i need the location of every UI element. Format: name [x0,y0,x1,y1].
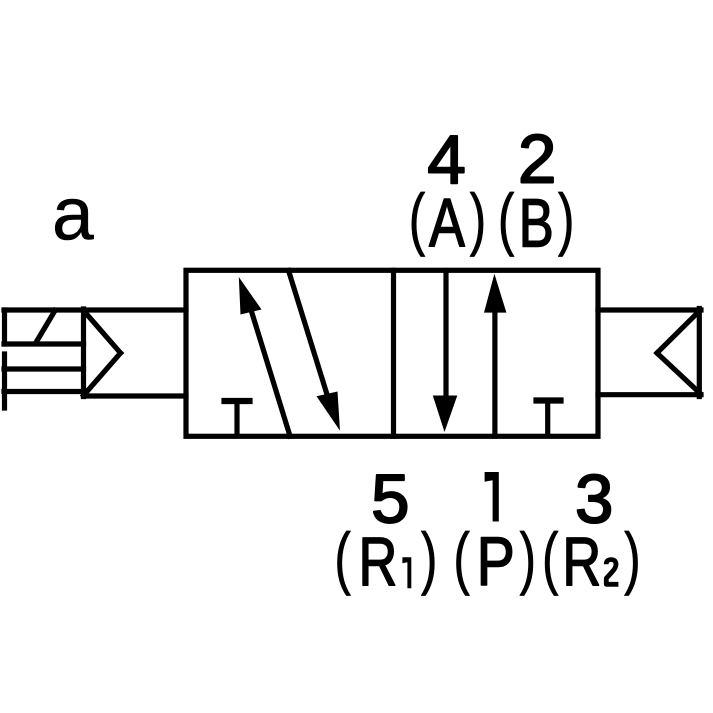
left chamber down-arrow shaft [289,271,328,397]
solenoid a: terminal lower line [4,389,84,394]
right pilot: triangle top edge [657,311,699,353]
right chamber down-arrow shaft (port 4/A) [443,271,448,401]
svg-text:): ) [470,180,487,257]
solenoid a: terminal bar vertical [2,354,7,408]
svg-text:(: ( [453,519,470,596]
svg-text:R: R [562,523,601,600]
left chamber up-arrow head [239,277,262,315]
svg-text:): ) [520,519,537,596]
right chamber down-arrow head [433,396,458,433]
svg-text:R: R [358,523,397,600]
right pilot: bottom line [598,392,701,397]
solenoid a: coil box bottom line [4,341,84,346]
svg-text:B: B [519,184,554,261]
svg-text:): ) [558,180,575,257]
left chamber up-arrow shaft [252,312,291,437]
valve body center divider [391,270,396,436]
left chamber blocked port T stem [234,401,239,435]
svg-text:(: ( [542,519,559,596]
svg-text:): ) [421,519,438,596]
svg-text:a: a [52,172,94,256]
solenoid a: pilot triangle base [81,309,86,397]
solenoid a: coil box left vertical [2,310,7,344]
left chamber down-arrow head [317,392,341,431]
right chamber up-arrow shaft (port 1/P) [492,312,497,436]
solenoid a: coil diagonal slash [36,311,55,343]
right pilot: triangle bottom edge [657,353,699,393]
left chamber blocked port T crossbar [225,398,250,404]
svg-text:): ) [624,519,641,596]
right chamber blocked port T stem [545,401,550,436]
right pilot: top line [598,307,701,312]
solenoid a: bottom connecting line to body [84,393,187,398]
svg-text:A: A [429,185,466,262]
valve body rectangle [186,270,598,436]
right chamber up-arrow head [484,274,506,313]
svg-text:(: ( [498,180,515,257]
svg-text:(: ( [334,519,351,596]
svg-text:P: P [477,524,515,600]
right chamber blocked port T crossbar [537,397,561,403]
solenoid a: pilot triangle top edge [84,311,121,354]
solenoid a: terminal middle line [4,366,84,371]
solenoid a: top connecting line [4,307,186,312]
right pilot: triangle base vertical [697,309,702,397]
solenoid a: pilot triangle bottom edge [84,353,121,396]
port number 1 (custom gothic shape, no foot) [485,472,499,522]
svg-text:(: ( [409,180,426,257]
